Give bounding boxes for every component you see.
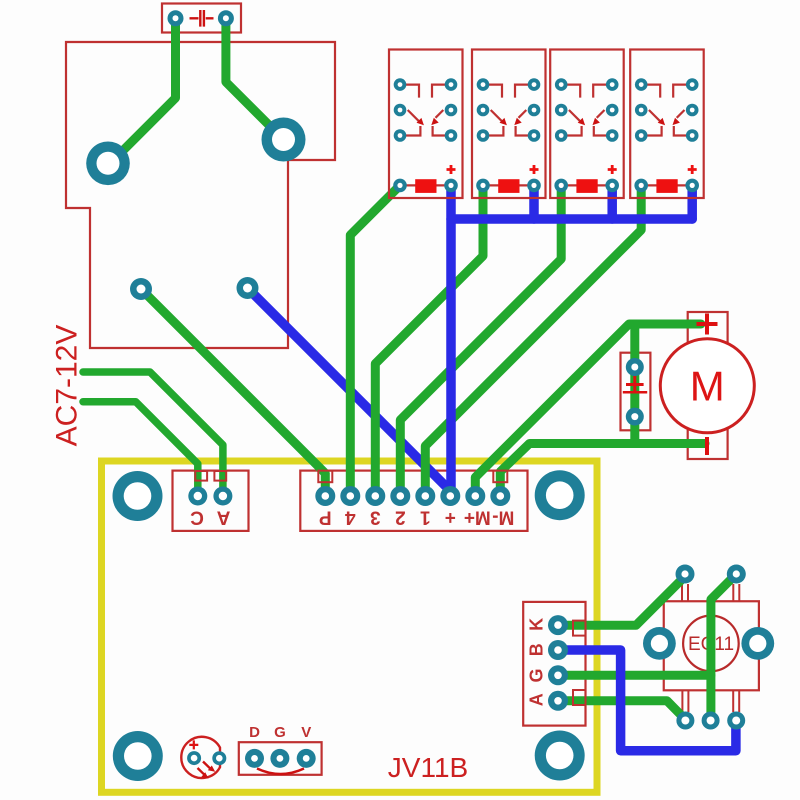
relay K2 — [472, 50, 546, 199]
pin mark J3 pad A — [573, 690, 586, 705]
svg-text:P: P — [319, 507, 332, 528]
wire relay K3 coil+ to bus — [607, 185, 617, 219]
connector J3 AGBK rect — [523, 602, 585, 726]
motor M1 circle — [660, 339, 754, 433]
svg-text:M+: M+ — [464, 507, 491, 528]
LED D1 arrows — [203, 762, 211, 769]
capacitor C1 — [162, 4, 241, 33]
svg-text:C: C — [190, 507, 204, 528]
pads encoder EC11 mount right — [741, 627, 774, 660]
pad board hole top-right — [535, 470, 585, 520]
connector J2 main header rect — [300, 471, 527, 531]
wire pad G branch — [558, 671, 711, 680]
pad board hole bottom-right — [535, 731, 585, 781]
encoder EC11 pin stubs top — [682, 584, 739, 601]
wire pin M+ to motor plus — [475, 324, 701, 496]
svg-text:G: G — [274, 724, 286, 741]
wire transformer to pin P — [141, 289, 325, 496]
pad transformer small left — [130, 278, 152, 300]
wire blue bus horizontal — [451, 214, 692, 224]
motor plus symbol — [697, 314, 718, 335]
wire pad A to encoder bottom-left pad — [558, 701, 685, 720]
pad transformer big right — [262, 118, 306, 162]
pad J1 A — [213, 487, 232, 506]
svg-text:M: M — [690, 363, 725, 410]
pad C1 left — [168, 10, 184, 26]
relay K4 — [630, 50, 704, 199]
connector J4 DGV rect — [239, 742, 322, 775]
pads J3 K B G A — [548, 615, 568, 711]
svg-text:D: D — [249, 724, 260, 741]
wire encoder top-right pad to bottom-middle pad — [711, 574, 736, 721]
wire AC input to pad A — [83, 402, 198, 496]
wire relay K4 coil+ to bus — [687, 185, 697, 219]
svg-text:1: 1 — [420, 507, 431, 528]
relay K3 — [550, 50, 624, 199]
wire relay K3 coil to pin 2 — [400, 185, 561, 496]
encoder EC11 circle — [683, 616, 739, 672]
wire AC input to pad C — [83, 372, 223, 496]
pad board hole top-left — [113, 471, 163, 521]
pad transformer big left — [86, 142, 130, 186]
svg-text:4: 4 — [345, 507, 356, 528]
relay K1 — [389, 50, 463, 199]
wire blue bus vertical to pin + — [446, 185, 456, 496]
svg-text:JV11B: JV11B — [388, 752, 468, 783]
pads LED D1 — [187, 751, 226, 765]
pad C1 right — [218, 10, 234, 26]
encoder EC11 pin stubs bottom — [682, 690, 739, 712]
pad transformer small right — [237, 277, 259, 299]
pads J4 D G V — [245, 749, 316, 768]
svg-text:V: V — [301, 724, 311, 741]
wire relay K2 coil+ to bus — [529, 185, 539, 219]
LED D1 outline — [181, 737, 220, 778]
svg-text:M-: M- — [492, 507, 514, 528]
wire relay K2 coil to pin 3 — [375, 185, 483, 496]
connector J4 DGV arc — [257, 769, 304, 775]
wire transformer to pin + (blue) — [248, 288, 451, 496]
pads capacitor C2 — [626, 358, 644, 426]
svg-text:G: G — [527, 668, 547, 682]
pin mark J2 pin P — [318, 471, 332, 483]
motor terminal minus rect — [688, 424, 728, 459]
wire capacitor C2 branch — [630, 324, 639, 444]
LED D1 plus — [189, 740, 198, 749]
capacitor C2 symbol — [626, 376, 644, 394]
svg-text:B: B — [527, 643, 547, 656]
pin mark J2 pin M- — [493, 471, 507, 483]
wire relay K4 coil to pin 1 — [425, 185, 641, 496]
wire pin M- to motor minus — [500, 444, 705, 497]
pad J1 C — [188, 487, 207, 506]
labels J2 P 4 3 2 1 + M+ M- — [319, 507, 515, 528]
pin mark J1 pad A — [214, 471, 226, 481]
svg-text:K: K — [527, 618, 547, 631]
labels J3 K B G A — [527, 618, 547, 706]
wire pad K to encoder top-left pad — [558, 574, 685, 625]
pin mark J1 pad C — [195, 471, 207, 481]
encoder EC11 footprint rect — [664, 601, 759, 690]
pads encoder EC11 mount left — [643, 627, 676, 660]
transformer T1 outline — [66, 42, 335, 348]
board outline JV11B — [102, 461, 598, 792]
svg-text:+: + — [445, 507, 456, 528]
svg-text:A: A — [527, 693, 547, 706]
wire cap C1 right to transformer pad — [226, 18, 284, 139]
pin mark J3 pad K — [573, 621, 586, 636]
wire pad B to encoder bottom-right pad (blue) — [558, 650, 736, 751]
motor terminal plus rect — [688, 312, 728, 350]
pads encoder EC11 top — [676, 565, 746, 584]
capacitor C2 rect — [621, 353, 651, 431]
wire relay K1 coil to pin 4 — [350, 185, 400, 496]
labels J4 D G V — [249, 724, 311, 741]
svg-text:A: A — [216, 507, 230, 528]
motor minus symbol — [705, 437, 709, 455]
svg-text:2: 2 — [395, 507, 406, 528]
svg-text:3: 3 — [370, 507, 381, 528]
pads encoder EC11 bottom — [676, 712, 745, 730]
connector J1 A-C rect — [173, 471, 249, 531]
pads J2 pins P 4 3 2 1 + M+ M- — [315, 486, 510, 506]
svg-text:AC7-12V: AC7-12V — [51, 325, 84, 447]
pad board hole bottom-left — [113, 731, 163, 781]
wire cap C1 left to transformer pad — [109, 18, 176, 164]
